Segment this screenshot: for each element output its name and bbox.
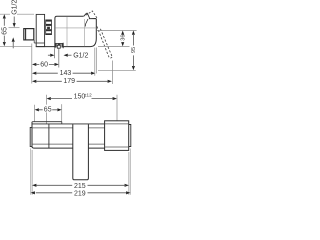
dim 65 ext lines [34, 105, 36, 122]
svg-text:179: 179 [63, 78, 75, 85]
dim 179 [32, 80, 36, 83]
body front face with rounded lower corner [91, 19, 97, 47]
left escutcheon lip [30, 127, 32, 146]
escutcheon internal line [34, 42, 44, 44]
svg-text:60: 60 [40, 62, 48, 69]
ext line body bottom right [98, 45, 130, 47]
handle block [73, 124, 89, 180]
ext lines bottom right [128, 152, 130, 195]
ext line handle swing bottom [98, 69, 136, 71]
bar internal lines [32, 127, 104, 129]
left escutcheon edge [48, 124, 50, 149]
body bottom edge [36, 46, 91, 48]
ext line body top right [97, 30, 137, 32]
ext line handle front [95, 48, 97, 74]
svg-text:36: 36 [121, 35, 127, 41]
dim 219 [31, 191, 35, 194]
ext line escutcheon top [0, 13, 34, 15]
svg-text:G1/2: G1/2 [11, 0, 18, 15]
ext line 143 (body front) [94, 48, 96, 76]
handle swing dashed lines [97, 26, 108, 55]
bar outline [32, 121, 62, 123]
left wall extension line [31, 44, 33, 84]
outlet stub [55, 43, 64, 47]
outlet extension lines [54, 48, 56, 58]
right escutcheon [105, 121, 129, 151]
tick at union top [9, 27, 20, 29]
body internal lines [55, 27, 96, 29]
handle knob top [89, 18, 96, 21]
right escutcheon internal lines [105, 124, 129, 147]
svg-text:95: 95 [131, 47, 137, 53]
handle spur [84, 13, 90, 18]
dim 95 [132, 31, 135, 35]
G1/2 leader: down arrow to union top [13, 17, 15, 25]
right escutcheon lip [129, 125, 131, 147]
dim 65 vertical [3, 14, 6, 18]
dim 143 [32, 72, 36, 75]
svg-text:±12: ±12 [84, 93, 92, 98]
dim 65 [35, 108, 39, 111]
svg-text:143: 143 [60, 70, 72, 77]
G1/2 outlet label row [50, 54, 54, 57]
dim 150+-12 [47, 97, 51, 100]
up arrow to union bottom [12, 37, 15, 41]
union nipple [24, 29, 34, 40]
dim 36 [121, 31, 124, 35]
union nut with bands [46, 20, 52, 35]
ext line 179 (swing tip) [111, 61, 113, 85]
dim 60 [32, 63, 36, 66]
svg-text:219: 219 [74, 190, 86, 197]
ext lines bottom left [31, 150, 33, 195]
ext line escutcheon bottom [0, 45, 32, 47]
ext lines 150 dim [46, 95, 48, 124]
svg-text:215: 215 [74, 183, 86, 190]
svg-text:65: 65 [2, 27, 9, 35]
escutcheon (side profile) [36, 14, 44, 46]
svg-text:G1/2: G1/2 [73, 52, 88, 59]
dim 215 [32, 184, 36, 187]
svg-text:65: 65 [44, 106, 52, 113]
body block [55, 16, 84, 46]
handle raised dashed [86, 11, 98, 18]
